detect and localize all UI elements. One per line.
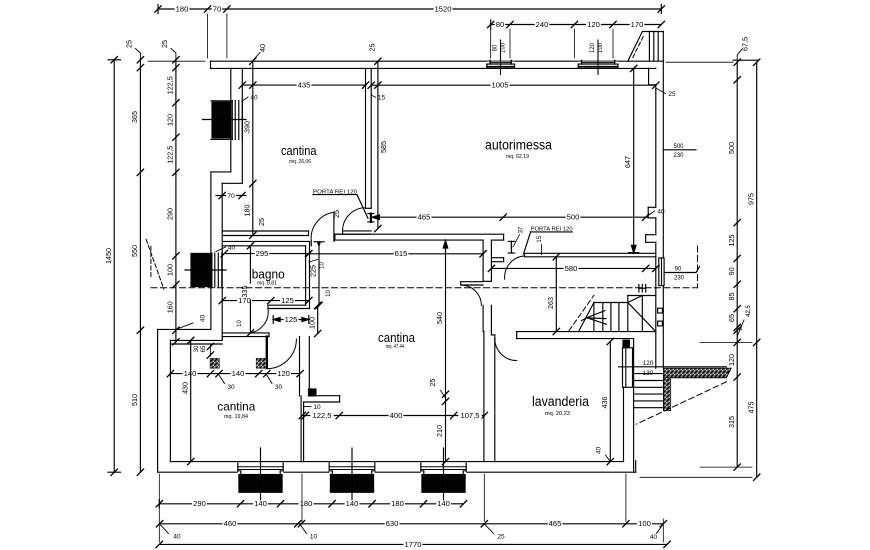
svg-text:500: 500 (567, 213, 580, 222)
svg-text:30: 30 (275, 384, 283, 391)
dim 70 wall step (216, 192, 246, 200)
extension lines right (640, 62, 752, 477)
dim 125 door (273, 315, 309, 324)
dashed line overhang (151, 287, 698, 289)
svg-text:180: 180 (391, 499, 404, 508)
label cantina47 (378, 330, 416, 345)
svg-text:80: 80 (496, 20, 504, 29)
svg-text:180: 180 (242, 205, 251, 217)
door autorimessa-south arc (505, 256, 525, 279)
svg-text:25: 25 (332, 210, 341, 218)
svg-text:40: 40 (228, 244, 236, 251)
dim 335 bagno (240, 243, 254, 337)
wall lavanderia north (517, 332, 656, 339)
wall exterior right inner lower (655, 218, 657, 368)
svg-text:37: 37 (519, 226, 525, 233)
pillar black cantina47 SW (309, 389, 316, 396)
dashed line right vertical (697, 246, 699, 288)
window bottom 3 (421, 448, 467, 504)
svg-text:1450: 1450 (104, 248, 113, 264)
dim 140/140/120 (167, 369, 303, 378)
svg-text:67,5: 67,5 (741, 37, 750, 51)
wall cantina26 south (left part) (222, 231, 308, 236)
svg-text:1770: 1770 (405, 540, 422, 549)
jog autorimessa SE corner (648, 207, 656, 218)
svg-text:25: 25 (497, 534, 505, 541)
svg-text:10: 10 (320, 262, 326, 269)
svg-text:mq. 62,19: mq. 62,19 (506, 154, 529, 160)
svg-text:975: 975 (746, 193, 755, 205)
dim 580 corridor (488, 264, 659, 273)
label cantina19 (217, 400, 255, 414)
dashed slope line external stair (636, 382, 726, 424)
dim 170/125 bagno (219, 296, 312, 305)
svg-text:cantina: cantina (217, 400, 255, 414)
wall corridor west upper (483, 240, 491, 281)
wall exterior right outer (662, 32, 664, 369)
wall bagno south-west (222, 333, 269, 337)
wall corridor west lower (483, 305, 491, 331)
label level 120 (643, 360, 654, 367)
door 90/230 in right wall (659, 258, 664, 286)
svg-text:mq. 19,84: mq. 19,84 (224, 414, 248, 420)
svg-text:bagno: bagno (252, 267, 285, 282)
leader 15 cantina26 wall (371, 95, 385, 102)
svg-text:230: 230 (674, 276, 685, 282)
dim 436 lavanderia (600, 338, 614, 465)
svg-text:25: 25 (125, 40, 134, 48)
leader 30 right (267, 375, 283, 391)
svg-text:100: 100 (307, 317, 316, 329)
svg-text:40: 40 (657, 209, 665, 216)
wall exterior top inner line (211, 67, 656, 69)
svg-text:120: 120 (590, 42, 596, 53)
dim 25 between doors (332, 210, 341, 218)
dim bottom 1770 (156, 540, 670, 549)
svg-text:120: 120 (587, 20, 600, 29)
svg-text:autorimessa: autorimessa (485, 138, 552, 153)
svg-text:180: 180 (176, 5, 189, 14)
wall cantina47 south plate (304, 396, 340, 402)
niche right wall (bocca di lupo) (646, 235, 656, 243)
svg-text:130: 130 (643, 370, 654, 377)
svg-text:15: 15 (378, 95, 386, 102)
label lavanderia (532, 394, 589, 409)
svg-text:630: 630 (386, 519, 399, 528)
svg-text:550: 550 (130, 245, 139, 257)
svg-text:122,5: 122,5 (166, 76, 175, 94)
svg-text:435: 435 (298, 81, 311, 90)
dim 435 cantina26 (239, 81, 369, 90)
dim chain left outer 25/365/550/510 (125, 40, 144, 475)
svg-text:cantina: cantina (281, 143, 317, 158)
label cantina47 mq (386, 344, 405, 350)
svg-text:540: 540 (435, 312, 444, 324)
wall exterior bottom inner (170, 461, 623, 463)
svg-text:40: 40 (650, 534, 658, 541)
svg-text:263: 263 (546, 297, 555, 309)
dim chain right outer 975/475 (733, 59, 760, 481)
svg-text:1005: 1005 (492, 81, 509, 90)
svg-text:225: 225 (309, 265, 318, 277)
dim 430 cantina19 (180, 337, 194, 465)
wall exterior left lower jut (158, 329, 211, 472)
lavanderia black box (623, 340, 629, 348)
dim 647 autorimessa (623, 65, 639, 253)
svg-text:400: 400 (390, 411, 403, 420)
svg-text:mq. 26,06: mq. 26,06 (289, 159, 311, 165)
leader 25 top wall divider (368, 44, 382, 65)
svg-text:140: 140 (232, 369, 245, 378)
label bagno mq (257, 281, 277, 287)
svg-text:290: 290 (166, 208, 175, 220)
leader 37 door (513, 226, 525, 247)
ramp hatched top-right (628, 32, 663, 61)
svg-text:42,5: 42,5 (746, 305, 752, 317)
svg-text:80: 80 (492, 44, 498, 51)
svg-text:140: 140 (254, 499, 267, 508)
svg-text:585: 585 (379, 141, 388, 153)
svg-text:140: 140 (346, 499, 359, 508)
door corridor arc (461, 285, 482, 305)
svg-text:125: 125 (281, 296, 294, 305)
svg-text:510: 510 (130, 394, 139, 406)
svg-text:180: 180 (300, 499, 313, 508)
dim 30/65 pillar (194, 343, 214, 358)
dim chain bottom row1 (156, 499, 467, 508)
svg-text:140: 140 (184, 369, 197, 378)
svg-text:107,5: 107,5 (460, 411, 479, 420)
dim 25 rotated left of door (257, 218, 266, 226)
wall bagno east (306, 241, 310, 308)
svg-text:120: 120 (277, 369, 290, 378)
dim chain top row1 180/70/1520 (155, 5, 665, 59)
wall corridor west stub (461, 282, 483, 285)
svg-text:120: 120 (643, 360, 654, 367)
svg-text:25: 25 (257, 218, 266, 226)
pillar 30x30 left hatched (210, 359, 219, 368)
svg-text:70: 70 (227, 193, 235, 200)
svg-text:290: 290 (193, 499, 206, 508)
svg-text:25: 25 (160, 40, 169, 48)
stair external treads (634, 374, 664, 408)
label porta rei cantina26 (313, 189, 368, 218)
svg-text:100: 100 (598, 42, 604, 53)
label 90/230 (664, 267, 699, 282)
wall exterior left lower inner faces (170, 340, 222, 461)
window bagno frame (185, 253, 226, 287)
svg-text:mq. 47,44: mq. 47,44 (386, 344, 405, 350)
svg-text:500: 500 (673, 144, 684, 150)
svg-text:122,5: 122,5 (166, 146, 175, 164)
svg-text:580: 580 (565, 264, 578, 273)
svg-text:40: 40 (250, 95, 258, 102)
dim 615 (306, 249, 487, 258)
wall exterior top outer line (211, 60, 664, 62)
door cantina26-left arc (311, 212, 334, 241)
svg-text:85: 85 (727, 293, 736, 301)
dim 225 bagno east (309, 242, 325, 309)
leader 40 bagno wall (216, 244, 235, 251)
window bottom 1 (238, 448, 283, 504)
svg-text:30: 30 (227, 384, 235, 391)
dim 100 passage (307, 302, 321, 336)
svg-text:100: 100 (166, 264, 175, 276)
leader 10 bagno east wall (309, 260, 326, 269)
label cantina19 mq (224, 414, 248, 420)
wall divider cantina26/autorimessa (366, 68, 372, 208)
wall cantina19 east upper (300, 337, 310, 396)
door cantina26-right arc (343, 208, 366, 231)
svg-text:10: 10 (738, 325, 744, 331)
dim 540/25/210 (428, 240, 449, 465)
level line 120/130 (619, 366, 727, 368)
symbol on dashed line (639, 285, 646, 293)
svg-text:10: 10 (310, 534, 318, 541)
wall bagno SE jog (268, 305, 310, 308)
svg-text:210: 210 (435, 425, 444, 437)
svg-text:40: 40 (173, 534, 181, 541)
wall lavanderia east outer (633, 339, 635, 473)
stair interior treads (579, 296, 656, 332)
window top 120/100 (578, 40, 618, 75)
label lavanderia mq (545, 411, 570, 417)
dim chain right inner (727, 37, 752, 470)
hatched retaining wall vertical (664, 378, 671, 411)
stair cut dashed line (569, 295, 594, 330)
window cantina26 niche hatch (212, 102, 231, 138)
svg-text:315: 315 (727, 416, 736, 428)
wall corridor north (525, 253, 656, 256)
window bagno hatch (191, 255, 211, 286)
svg-text:615: 615 (395, 249, 408, 258)
wall exterior right inner upper (649, 68, 656, 207)
wall west inner face (cantina/bagno) (222, 183, 242, 340)
dim chain left inner (160, 40, 207, 345)
label bagno (252, 267, 285, 282)
pillar 30x30 right hatched (257, 359, 267, 368)
svg-text:25: 25 (668, 91, 676, 98)
svg-text:365: 365 (130, 111, 139, 123)
label autorimessa (485, 138, 552, 153)
door cantina19 arc (267, 339, 297, 369)
dim 1005 autorimessa (368, 81, 659, 90)
svg-text:647: 647 (623, 156, 632, 168)
svg-text:240: 240 (536, 20, 549, 29)
ramp dashed edge (633, 36, 644, 58)
dim 585 cantina26 (375, 61, 388, 232)
door bagno arc (250, 309, 269, 334)
leader 30 left (219, 375, 235, 391)
svg-text:65: 65 (727, 314, 736, 322)
svg-text:25: 25 (368, 44, 377, 52)
dim chain bottom row2 (156, 519, 666, 541)
svg-text:465: 465 (418, 213, 431, 222)
wall exterior bottom outer (158, 461, 636, 473)
label cantina26 mq (289, 159, 311, 165)
extension lines bottom (159, 474, 663, 542)
dim chain top row2 80/240/120/170 (488, 20, 665, 58)
svg-text:335: 335 (240, 286, 249, 298)
wall cantina NW inner corner (241, 68, 243, 183)
wall exterior left upper (window recess) (211, 61, 231, 329)
svg-text:cantina: cantina (378, 330, 416, 345)
svg-text:70: 70 (213, 5, 221, 14)
svg-text:475: 475 (746, 402, 755, 414)
svg-text:100: 100 (638, 519, 651, 528)
clip marks right wall (658, 308, 663, 326)
window bottom 2 (329, 448, 375, 504)
leader 40 lavanderia (595, 447, 610, 462)
svg-text:500: 500 (727, 142, 736, 154)
leader 40 top wall (253, 44, 267, 61)
leader 10 bagno south (237, 320, 243, 327)
svg-text:390: 390 (242, 121, 251, 133)
svg-text:295: 295 (256, 249, 269, 258)
label level 130 (643, 370, 654, 377)
leader 40 window top (242, 95, 258, 102)
dim 263 corridor (546, 254, 560, 335)
svg-text:10: 10 (313, 404, 321, 411)
svg-text:mq. 20,23: mq. 20,23 (545, 411, 570, 417)
svg-text:122,5: 122,5 (312, 411, 331, 420)
door jamb T cantina26 (368, 214, 374, 222)
label autorimessa mq (506, 154, 529, 160)
wall bagno north (222, 241, 309, 245)
dim 295 bagno (221, 249, 312, 258)
wall autorimessa south (335, 234, 504, 240)
lavanderia east door frame (623, 348, 633, 462)
dim 465/500 autorimessa south (372, 209, 665, 222)
svg-text:120: 120 (727, 354, 736, 366)
dim 390/180 (242, 58, 256, 239)
svg-text:436: 436 (600, 397, 609, 409)
wall cantina19 east lower (301, 396, 304, 462)
label 500/230 (664, 144, 696, 159)
svg-text:1520: 1520 (435, 5, 452, 14)
svg-text:30: 30 (194, 345, 200, 352)
svg-text:125: 125 (727, 235, 736, 247)
door cantina26-left leaf (311, 212, 334, 246)
window top 80/100 (487, 40, 515, 75)
svg-text:10: 10 (237, 320, 243, 327)
label cantina26 (281, 143, 317, 158)
svg-text:40: 40 (200, 315, 207, 323)
label porta rei corridor (524, 227, 573, 254)
svg-text:125: 125 (285, 315, 298, 324)
window cantina26 frame (203, 101, 247, 140)
svg-text:15: 15 (537, 235, 543, 242)
svg-text:160: 160 (166, 301, 175, 313)
svg-text:10: 10 (326, 290, 332, 297)
svg-text:mq. 8,81: mq. 8,81 (257, 281, 277, 287)
leader 15 corridor wall (537, 235, 543, 254)
extension top-left corner (148, 60, 205, 62)
wall lavanderia west (484, 332, 495, 462)
svg-text:lavanderia: lavanderia (532, 394, 589, 409)
svg-text:40: 40 (595, 447, 602, 455)
svg-text:100: 100 (501, 42, 507, 53)
svg-text:65: 65 (201, 345, 207, 352)
leader 10 near dashed (326, 290, 332, 297)
dim 122,5/400/107,5 (299, 404, 488, 420)
svg-text:465: 465 (549, 519, 562, 528)
dashed projection left of bagno window (146, 239, 164, 289)
svg-text:120: 120 (166, 114, 175, 126)
wall stub corridor north-west (491, 258, 503, 262)
door jamb I autorimessa-south (508, 241, 514, 253)
svg-text:25: 25 (428, 379, 437, 387)
svg-text:460: 460 (224, 519, 237, 528)
svg-text:170: 170 (631, 20, 644, 29)
dim 1450 left (104, 57, 121, 476)
svg-text:140: 140 (437, 499, 450, 508)
svg-text:40: 40 (258, 44, 267, 52)
svg-text:90: 90 (675, 267, 682, 273)
leader 25 autorimessa NE (656, 88, 676, 98)
svg-text:430: 430 (180, 382, 189, 394)
svg-text:90: 90 (727, 267, 736, 275)
door lavanderia arc (495, 339, 517, 361)
wall cantina26 south (right part) (335, 231, 371, 234)
door cantina19 leaf (266, 337, 268, 368)
svg-text:230: 230 (673, 153, 684, 159)
hatched retaining wall horizontal (664, 368, 731, 378)
